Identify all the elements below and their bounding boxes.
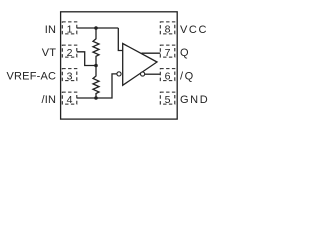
svg-text:8: 8 — [165, 24, 171, 36]
pin 5 dashed box — [160, 92, 175, 104]
svg-text:VT: VT — [42, 47, 57, 59]
node B junction dot (center tap between R1 and R2) — [94, 64, 98, 68]
pin 1 dashed box — [62, 22, 77, 34]
svg-text:1: 1 — [67, 24, 73, 36]
svg-text:3: 3 — [67, 70, 73, 82]
pin 2 dashed box — [62, 45, 77, 57]
wire: pin1 IN to node A and to x=118 — [77, 27, 119, 29]
pin 3 dashed box — [62, 69, 77, 81]
inverting input bubble — [117, 72, 121, 76]
resistor R1 — [93, 28, 99, 66]
wire: vertical down from IN wire into buffer top input — [118, 28, 122, 51]
svg-text:4: 4 — [67, 94, 73, 106]
wire: /Q output bubble to pin 6 — [145, 73, 161, 75]
wire: Q output to pin 7 — [142, 52, 161, 54]
node A junction dot (IN / R1 top) — [94, 26, 98, 30]
svg-text:VREF-AC: VREF-AC — [7, 71, 57, 83]
pin 6 dashed box — [160, 69, 175, 81]
pin 8 dashed box — [160, 22, 175, 34]
svg-text:/IN: /IN — [42, 94, 57, 106]
svg-text:5: 5 — [165, 94, 171, 106]
svg-text:GND: GND — [180, 94, 209, 106]
svg-text:/Q: /Q — [180, 71, 195, 83]
resistor R2 — [93, 66, 99, 99]
inverted output bubble (/Q) — [141, 72, 145, 76]
pin 4 dashed box — [62, 92, 77, 104]
wire: pin2 VT to node B (center tap) — [77, 52, 96, 66]
node C junction dot (/IN / R2 bottom) — [94, 96, 98, 100]
wire: pin4 /IN to node C and up to buffer inverting input — [77, 74, 117, 98]
svg-text:IN: IN — [45, 24, 56, 36]
svg-text:Q: Q — [180, 47, 190, 59]
svg-text:VCC: VCC — [180, 24, 208, 36]
op-amp / receiver buffer U1a triangle — [123, 44, 157, 86]
svg-text:6: 6 — [165, 70, 171, 82]
IC package body U1 — [61, 12, 178, 119]
svg-text:7: 7 — [165, 47, 171, 59]
pin 7 dashed box — [160, 45, 175, 57]
svg-text:2: 2 — [67, 47, 73, 59]
